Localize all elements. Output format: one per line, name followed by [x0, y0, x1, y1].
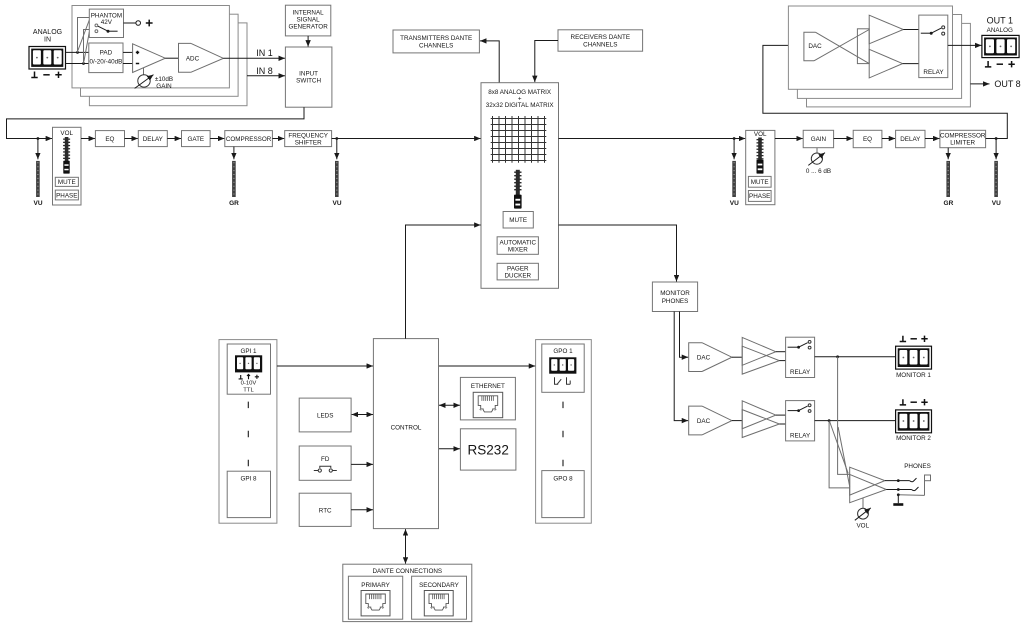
svg-text:MONITOR: MONITOR: [660, 290, 690, 297]
wire input switch to channel strip bus: [7, 107, 305, 138]
label ground minus plus under ANALOG IN: [31, 72, 61, 79]
meter VU output strip: [730, 139, 739, 208]
svg-text:MUTE: MUTE: [751, 179, 769, 186]
svg-text:PHASE: PHASE: [749, 193, 770, 200]
svg-text:PRIMARY: PRIMARY: [361, 582, 390, 589]
wire leds control bidirectional: [352, 414, 373, 416]
junction phones tap 1: [836, 355, 839, 358]
junction phones tap 2: [828, 419, 831, 422]
junction jack sleeve: [897, 493, 900, 496]
button MUTE matrix: [503, 212, 533, 229]
automatic mixer box: [497, 237, 538, 255]
wire signal generator to input switch: [307, 36, 309, 47]
junction jack tip: [897, 479, 900, 482]
svg-text:MONITOR 2: MONITOR 2: [896, 435, 931, 442]
jack contact ring: [912, 487, 919, 491]
svg-text:VU: VU: [730, 200, 739, 207]
output stage card layer 1: [788, 6, 952, 89]
compressor limiter box: [940, 130, 986, 147]
wire phones diagonal 1: [830, 422, 849, 474]
wire matrix to output channel strip: [559, 138, 746, 140]
junction jack ring: [897, 488, 900, 491]
wire frequency shifter to matrix: [332, 138, 481, 140]
switch phantom: [95, 24, 118, 33]
gain box output: [803, 130, 833, 147]
svg-text:RELAY: RELAY: [923, 69, 944, 76]
dashed wire gpo expansion: [562, 402, 564, 467]
gpi container: [219, 340, 277, 524]
svg-text:GPI 1: GPI 1: [240, 348, 257, 355]
svg-text:ETHERNET: ETHERNET: [471, 383, 505, 390]
junction phantom feed hot: [76, 51, 79, 54]
svg-text:DAC: DAC: [808, 43, 822, 50]
wire GATE to COMPRESSOR: [210, 138, 224, 140]
wire amp hot to relay: [903, 29, 919, 31]
wire OUT 8: [970, 83, 989, 85]
button MUTE input: [55, 177, 78, 186]
secondary port box: [412, 576, 467, 619]
terminal block MONITOR 2: [896, 410, 932, 433]
wire control to dante connections bidirectional: [405, 529, 407, 564]
compressor box: [225, 131, 273, 147]
input switch box: [285, 47, 332, 107]
wire IN 1 to input switch: [223, 57, 285, 59]
svg-text:DAC: DAC: [697, 354, 711, 361]
svg-text:GPI 8: GPI 8: [240, 475, 257, 482]
wire fd to control: [351, 463, 373, 465]
svg-text:GR: GR: [944, 200, 954, 207]
svg-text:PHONES: PHONES: [904, 463, 931, 470]
svg-text:SECONDARY: SECONDARY: [419, 582, 460, 589]
amplifier monitor 2: [742, 401, 779, 438]
pager ducker box: [497, 263, 538, 280]
wire matrix to transmitters: [480, 41, 499, 83]
transmitters dante channels box: [393, 30, 479, 53]
svg-text:RELAY: RELAY: [790, 369, 811, 376]
label ground minus plus above MONITOR 1: [900, 336, 928, 342]
svg-text:DANTE CONNECTIONS: DANTE CONNECTIONS: [372, 568, 442, 575]
rj45 jack secondary: [424, 591, 453, 616]
wire headphone amp out left: [885, 480, 910, 482]
wire op-amp to adc: [165, 57, 178, 59]
terminal block OUT 1: [982, 35, 1019, 57]
amplifier triangle cold: [869, 49, 902, 78]
wire amp2 to relay2: [776, 414, 786, 416]
label ground minus plus under OUT 1: [985, 61, 1015, 67]
svg-text:MUTE: MUTE: [58, 179, 76, 186]
wire EQ to DELAY: [882, 138, 895, 140]
rj45 jack ethernet: [473, 392, 503, 417]
potentiometer gain 0...6dB: [808, 153, 825, 166]
wire phones vol tap: [862, 498, 864, 508]
wire control to matrix pager input: [406, 225, 481, 339]
junction VU tap output strip: [733, 137, 736, 140]
frequency shifter box: [285, 131, 332, 147]
gpo container: [536, 340, 592, 524]
svg-text:DELAY: DELAY: [143, 136, 164, 143]
wire relay2 to monitor2 terminal: [815, 420, 896, 422]
gpo 1 box: [542, 344, 584, 392]
wire amp1 to relay1: [776, 351, 786, 353]
rtc box real time clock: [299, 493, 351, 526]
meter VU input: [33, 139, 42, 208]
adc A/D converter: [179, 43, 224, 72]
op-amp input preamp: [133, 44, 166, 73]
svg-text:INPUT: INPUT: [299, 71, 318, 78]
wire phones tap 1 to headphone amp: [838, 357, 850, 475]
monitor phones box: [652, 282, 697, 312]
gpo 8 box: [542, 471, 584, 518]
delay box input: [138, 131, 167, 147]
wire control to gpo: [439, 365, 535, 367]
svg-text:PAD: PAD: [100, 50, 113, 57]
wire gain pot tap: [143, 68, 145, 75]
svg-text:DUCKER: DUCKER: [505, 273, 532, 280]
wire DELAY to GATE: [167, 138, 181, 140]
delay box output: [896, 130, 925, 147]
svg-text:COMPRESSOR: COMPRESSOR: [940, 133, 986, 140]
wire headphone amp out right: [886, 489, 911, 491]
svg-text:PAGER: PAGER: [507, 266, 529, 273]
primary port box: [348, 576, 402, 619]
fd box factory default button: [299, 446, 351, 480]
potentiometer gain ±10dB: [135, 75, 154, 89]
svg-text:RTC: RTC: [319, 507, 332, 514]
matrix crosspoint grid: [491, 116, 547, 163]
svg-text:IN 1: IN 1: [256, 48, 273, 58]
wire dac1 to amp1: [732, 356, 742, 358]
svg-text:LIMITER: LIMITER: [950, 140, 975, 147]
jack contact tip: [910, 478, 917, 482]
wire receivers to matrix: [535, 41, 558, 83]
wire DELAY to COMPRESSOR LIMITER: [925, 138, 940, 140]
terminal block GPO 1: [549, 357, 576, 373]
svg-text:VOL: VOL: [856, 523, 869, 530]
svg-text:CHANNELS: CHANNELS: [583, 41, 617, 48]
wire control ethernet bidirectional: [439, 404, 460, 406]
svg-text:OUT 8: OUT 8: [994, 79, 1020, 89]
svg-text:INTERNAL: INTERNAL: [293, 10, 325, 17]
svg-text:SWITCH: SWITCH: [296, 78, 321, 85]
output stage stacked card layer 2: [797, 15, 961, 99]
internal signal generator box: [285, 5, 330, 36]
svg-text:FREQUENCY: FREQUENCY: [288, 133, 328, 140]
label plus at phantom output: [146, 20, 153, 27]
junction phantom feed cold: [82, 62, 85, 65]
wire compressor limiter to DAC feedback loop: [763, 45, 1007, 138]
dac monitor 2: [689, 406, 732, 435]
eq box output: [853, 130, 882, 147]
receivers dante channels box: [558, 30, 643, 51]
input stage stacked card layer 2: [81, 14, 239, 96]
node phantom output circle: [136, 21, 141, 26]
svg-text:GR: GR: [229, 200, 239, 207]
wire GAIN to EQ: [834, 138, 853, 140]
attenuator box PAD 0/-20/-40dB: [89, 43, 123, 73]
output stage stacked card layer 3: [807, 23, 971, 107]
wire phones tap 2 to headphone amp: [829, 421, 850, 488]
svg-text:CHANNELS: CHANNELS: [419, 42, 453, 49]
relay box monitor 2: [786, 401, 815, 441]
amplifier triangle hot: [869, 15, 903, 44]
button MUTE output: [748, 176, 771, 187]
terminal block MONITOR 1: [896, 346, 932, 369]
svg-text:VU: VU: [332, 200, 341, 207]
dac monitor 1: [689, 343, 732, 372]
svg-text:IN: IN: [44, 37, 51, 44]
svg-text:ADC: ADC: [186, 56, 200, 63]
headphone amplifier: [850, 467, 887, 503]
svg-text:32x32 DIGITAL MATRIX: 32x32 DIGITAL MATRIX: [486, 102, 555, 109]
svg-text:VOL: VOL: [754, 131, 767, 138]
junction VU tap post chain: [335, 137, 338, 140]
svg-text:0-10V: 0-10V: [241, 381, 257, 387]
svg-text:LEDS: LEDS: [317, 412, 333, 419]
svg-text:VU: VU: [33, 200, 42, 207]
rs232 box: [460, 429, 516, 470]
terminal block GPI 1: [235, 355, 262, 372]
wire monitor phones to DAC 1: [680, 312, 689, 358]
wire input cold: [66, 63, 89, 65]
headphone jack body: [898, 475, 930, 495]
wire relay1 to monitor1 terminal: [815, 356, 896, 358]
svg-text:GENERATOR: GENERATOR: [288, 24, 328, 31]
wire pad to op-amp plus: [123, 51, 133, 53]
svg-text:SIGNAL: SIGNAL: [297, 17, 321, 24]
label ground signal plus under GPI 1: [239, 374, 259, 379]
gate box: [182, 131, 211, 147]
switch relay monitor 2: [788, 404, 811, 413]
wire amp cold to relay: [903, 63, 919, 65]
svg-text:DAC: DAC: [697, 418, 711, 425]
svg-text:CONTROL: CONTROL: [391, 425, 422, 432]
meter VU post chain: [332, 139, 341, 208]
phantom power box PHANTOM 42V: [89, 9, 123, 37]
svg-text:COMPRESSOR: COMPRESSOR: [226, 136, 272, 143]
leds box: [299, 398, 351, 432]
svg-text:GPO 1: GPO 1: [553, 348, 573, 355]
switch relay monitor 1: [788, 341, 811, 350]
pushbutton FD: [314, 466, 337, 472]
svg-text:DELAY: DELAY: [900, 136, 921, 143]
svg-text:TRANSMITTERS DANTE: TRANSMITTERS DANTE: [400, 35, 472, 42]
button PHASE output: [748, 191, 771, 202]
svg-text:EQ: EQ: [105, 136, 114, 143]
wire input hot: [66, 51, 89, 53]
svg-text:MUTE: MUTE: [509, 217, 527, 224]
wire COMPRESSOR to FREQUENCY SHIFTER: [272, 138, 284, 140]
wire EQ to DELAY: [125, 138, 138, 140]
wire amp1 cold to relay1: [779, 360, 785, 362]
wire amp2 cold to relay2: [779, 423, 785, 425]
wire phantom feed 1: [78, 18, 90, 53]
wire gain pot tap: [816, 148, 818, 153]
svg-text:PHASE: PHASE: [56, 192, 77, 199]
svg-text:PHONES: PHONES: [662, 298, 689, 305]
ethernet box: [460, 377, 515, 420]
wire rtc to control: [351, 509, 373, 511]
svg-text:VOL: VOL: [60, 130, 73, 137]
wire gpi to control: [277, 365, 373, 367]
svg-text:ANALOG: ANALOG: [33, 29, 62, 36]
svg-text:EQ: EQ: [863, 136, 872, 143]
junction VU tap post limiter: [995, 137, 998, 140]
svg-text:RS232: RS232: [468, 442, 509, 457]
svg-text:42V: 42V: [101, 19, 113, 26]
button PHASE input: [55, 190, 78, 200]
svg-text:0 ... 6 dB: 0 ... 6 dB: [806, 168, 831, 175]
control box: [373, 339, 438, 529]
ground phones sleeve: [893, 495, 903, 506]
dante connections container: [343, 564, 472, 621]
wire phantom diagonal 2: [84, 32, 89, 62]
wire matrix to monitor phones: [559, 225, 677, 282]
rj45 jack primary: [361, 591, 390, 616]
svg-text:RECEIVERS DANTE: RECEIVERS DANTE: [571, 34, 630, 41]
fader VOL input channel: [53, 127, 82, 205]
potentiometer phones VOL: [855, 508, 871, 520]
wire phantom output: [124, 22, 136, 24]
svg-text:RELAY: RELAY: [790, 433, 811, 440]
dashed wire gpi expansion: [247, 402, 249, 467]
svg-text:MONITOR 1: MONITOR 1: [896, 372, 931, 379]
fader matrix level: [514, 170, 522, 209]
svg-text:AUTOMATIC: AUTOMATIC: [500, 240, 537, 247]
label ground minus plus above MONITOR 2: [900, 399, 928, 405]
balanced driver frame: [857, 29, 869, 64]
svg-text:ANALOG: ANALOG: [987, 27, 1013, 34]
wire phones diagonal 2: [838, 427, 850, 487]
input stage stacked card layer 3: [89, 23, 247, 106]
meter GR compressor limiter: [944, 148, 954, 207]
wire phantom feed 2: [84, 30, 90, 64]
meter GR compressor: [229, 147, 239, 207]
svg-text:IN 8: IN 8: [256, 66, 273, 76]
terminal block ANALOG IN: [29, 47, 66, 70]
svg-text:FD: FD: [321, 456, 330, 463]
svg-text:OUT 1: OUT 1: [987, 16, 1013, 26]
wire VOL to GAIN: [775, 138, 803, 140]
wire pad to op-amp minus: [123, 63, 133, 65]
meter VU post limiter: [992, 139, 1001, 208]
svg-text:GAIN: GAIN: [811, 136, 827, 143]
gpi 8 box: [227, 471, 270, 517]
svg-text:VU: VU: [992, 200, 1001, 207]
wire phantom diagonal 1: [78, 20, 89, 51]
svg-text:GATE: GATE: [187, 136, 204, 143]
input stage card layer 1: [72, 6, 229, 88]
svg-text:TTL: TTL: [243, 387, 254, 393]
switch relay output: [921, 26, 945, 35]
relay box output: [919, 15, 948, 78]
gpi 1 box: [227, 344, 270, 394]
relay contact symbols GPO: [555, 377, 571, 384]
eq box input: [95, 131, 124, 147]
amplifier monitor 1: [742, 337, 779, 374]
wire dac2 to amp2: [732, 420, 742, 422]
wire IN 8 to input switch: [247, 75, 285, 77]
wire control to rs232: [439, 448, 460, 450]
wire relay to OUT 1: [948, 44, 982, 46]
svg-text:GAIN: GAIN: [156, 83, 172, 90]
fader VOL output channel: [746, 130, 775, 204]
svg-text:MIXER: MIXER: [508, 247, 528, 254]
svg-text:0/-20/-40dB: 0/-20/-40dB: [89, 59, 122, 66]
wire monitor phones to DAC 2: [674, 312, 688, 421]
svg-text:SHIFTER: SHIFTER: [295, 140, 322, 147]
relay box monitor 1: [786, 337, 815, 377]
junction VU tap input: [37, 137, 40, 140]
matrix box 8x8 analog 32x32 digital: [481, 83, 559, 289]
wire VOL to EQ: [81, 138, 95, 140]
dac output converter: [804, 30, 869, 64]
svg-text:GPO 8: GPO 8: [553, 475, 573, 482]
